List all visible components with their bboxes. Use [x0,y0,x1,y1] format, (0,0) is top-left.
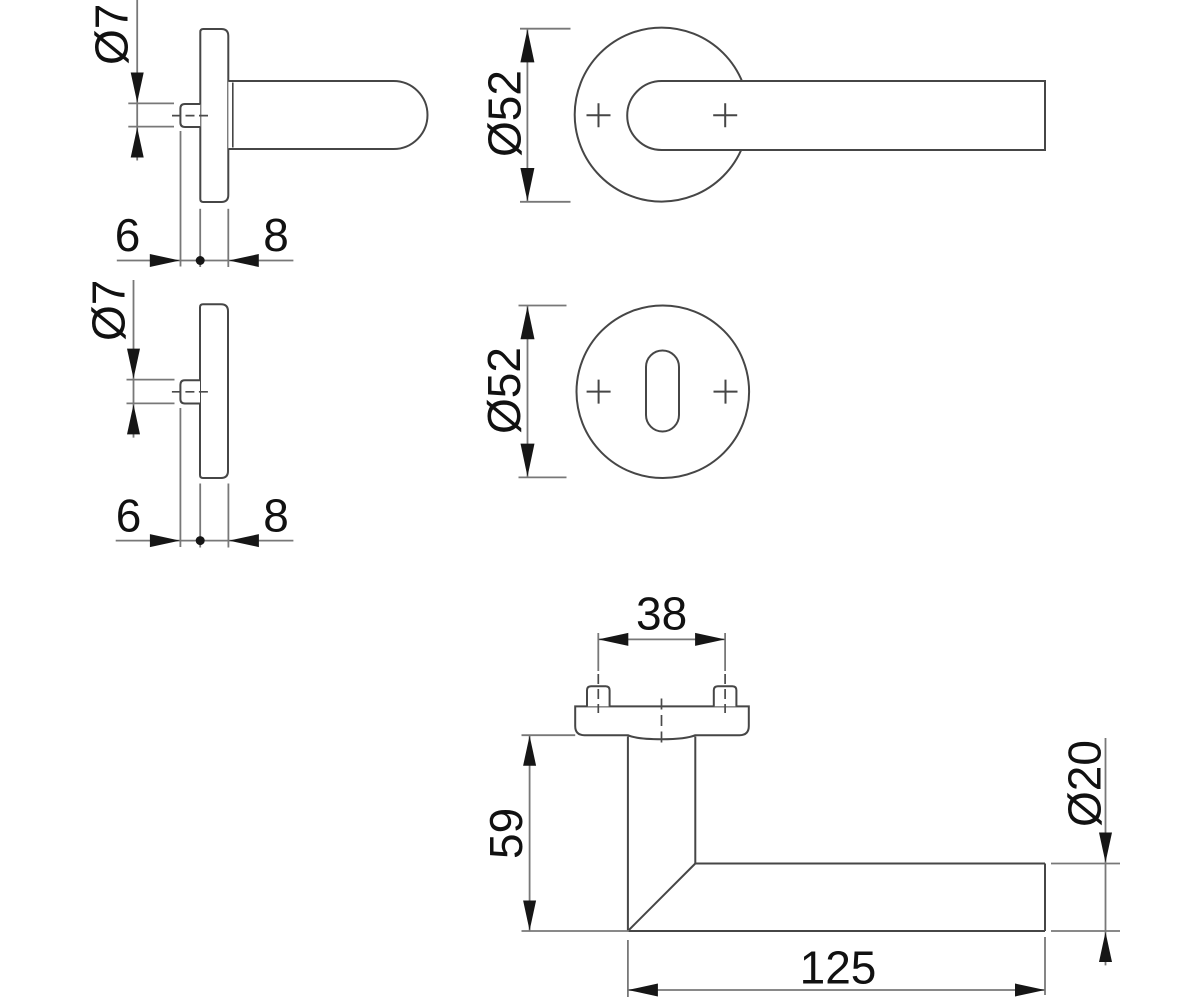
dimension 125 line [628,989,1045,991]
dimension 125 arrow left [628,984,658,997]
dimension Ø52 (view4) tick top [519,305,567,307]
dimension 59 arrow up [523,736,536,766]
grip right end [1044,864,1046,932]
dimension Ø7 (view3) arrow down [127,349,140,379]
dimension 6 (view1) arrow [150,254,180,267]
dimension Ø7 (view3) line [133,280,135,438]
dimension 8 (view3) arrow [229,534,259,547]
dimension Ø7 (view1) ext bottom [128,126,174,128]
svg-text:Ø52: Ø52 [478,347,530,434]
neck seam line [232,83,234,148]
keyhole slot [646,351,679,432]
dimension Ø52 (view4) tick bottom [519,476,567,478]
svg-text:Ø52: Ø52 [479,70,531,157]
dimension Ø52 (view2) tick top [520,28,571,30]
key rosette circle front view [577,305,750,478]
dimension 6/8 (view3) ext middle [199,484,201,548]
handle neck side view [228,81,427,149]
dimension 6/8 (view1) line [117,260,294,262]
dimension Ø52 (view2) tick bottom [520,201,571,203]
dimension Ø20 line [1105,738,1107,965]
dimension 125 ext left [627,940,629,997]
svg-text:Ø7: Ø7 [86,4,138,65]
grip bottom edge [628,930,1045,932]
screw centerline right [724,674,726,713]
key stub centerline [172,391,208,393]
dimension 6/8 (view3) ext left [179,408,181,547]
dimension 6/8 (view1) ext middle [199,209,201,267]
screw cross left (view2) [587,103,611,127]
dimension Ø7 (view3) arrow up [127,404,140,434]
rose plate top view [575,706,749,739]
svg-text:38: 38 [636,588,687,640]
svg-text:6: 6 [116,490,142,542]
dimension Ø7 (view3) ext bottom [127,402,175,404]
svg-text:8: 8 [263,209,289,261]
dimension Ø7 (view3) ext top [127,379,175,381]
dimension 6/8 (view1) ext left [180,131,182,267]
dimension Ø52 (view2) arrow up [520,29,534,62]
rose circle front view [575,28,749,202]
dimension 6/8 (view3) ext right [227,484,229,548]
dimension Ø52 (view2) arrow down [520,168,534,201]
spindle centerline (view5) [661,699,663,749]
screw cross right (view4) [714,380,738,404]
dimension 125 arrow right [1015,984,1045,997]
dimension Ø7 (view1) ext top [128,102,174,104]
svg-text:59: 59 [480,808,532,859]
dimension 6 (view3) arrow [150,534,180,547]
dimension 125 ext right [1044,937,1046,995]
dimension 59 arrow down [523,901,536,931]
dimension Ø52 (view4) arrow down [521,444,535,477]
dimension Ø20 arrow down [1099,833,1112,863]
dimension 38 arrow left [598,633,628,646]
svg-text:6: 6 [115,209,141,261]
dimension Ø7 (view1) line [136,0,138,161]
grip top edge [695,863,1045,865]
dimension 59 tick top [522,734,576,736]
dimension 38 line [598,638,725,640]
svg-text:Ø20: Ø20 [1059,740,1111,827]
dimension Ø20 tick bottom [1051,930,1120,932]
dimension Ø7 (view1) arrow down [131,73,144,103]
dimension Ø7 (view1) arrow up [131,128,144,158]
rosette side view (handle rose) [200,29,228,202]
svg-text:Ø7: Ø7 [83,280,135,341]
lever handle front view [627,81,1045,150]
key stub side view [180,380,200,403]
svg-text:8: 8 [263,490,289,542]
dimension dot (view1) [196,256,205,265]
neck left edge top view [627,737,629,932]
screw cross right (view2) [713,103,737,127]
spindle centerline [172,115,208,117]
dimension Ø52 (view4) line [527,306,529,478]
screw right top view [714,686,737,706]
svg-text:125: 125 [800,942,877,994]
dimension 59 tick bottom [522,930,630,932]
dimension Ø20 tick top [1051,863,1120,865]
dimension 6/8 (view3) line [116,540,294,542]
dimension 38 ext left [597,633,599,671]
screw cross left (view4) [587,380,611,404]
bend diagonal [628,864,695,932]
dimension 38 ext right [724,633,726,671]
dimension 38 arrow right [695,633,725,646]
dimension Ø52 (view2) line [526,29,528,202]
dimension 8 (view1) arrow [229,254,259,267]
dimension dot (view3) [196,536,205,545]
screw centerline left [597,674,599,713]
dimension 59 line [529,735,531,931]
key rosette side view [200,304,228,478]
dimension 6/8 (view1) ext right [227,209,229,267]
dimension Ø52 (view4) arrow up [521,306,535,339]
dimension Ø20 arrow up [1099,932,1112,962]
screw left top view [587,686,610,706]
spindle stub side view [180,104,200,127]
neck right edge top view [694,737,696,864]
